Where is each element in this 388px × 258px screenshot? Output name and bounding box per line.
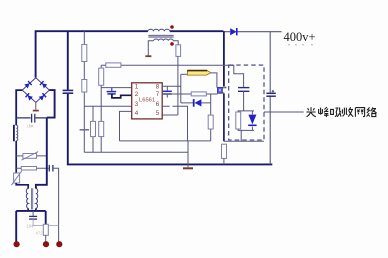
bridge diode bottom-left [26,93,33,100]
rail B x46.8 [36,118,47,189]
resistor R-leg vertical [43,224,48,235]
wire: drain vertical x224 [223,31,225,86]
transformer T1 primary winding [148,29,170,31]
capacitor C-snubber [238,88,249,92]
wire: bridge left to x16 [16,90,22,125]
common mode choke left winding [26,189,28,209]
terminal dot 1 [14,241,20,247]
label text 尖峰吸收网络 (hand-drawn strokes) [306,107,376,117]
rail x84: from top bus down [83,31,85,152]
transformer T1 core [148,35,173,37]
transformer T1 aux winding [154,39,174,41]
svg-text:472: 472 [36,231,44,236]
wire: pin5 [162,114,178,116]
wire: source to snubber bottom [224,140,264,142]
capacitor C-y [32,211,34,216]
resistor R-b1 [99,68,104,85]
wire: pin8 [162,85,181,87]
transistor Q1 MOSFET [218,87,226,95]
wire: aux right lead [173,41,178,45]
wire: left leg [15,211,17,242]
IC U1 L6561 [132,83,163,119]
收 [342,107,353,116]
resistor R-gate1 yellow highlighted [187,70,211,75]
junction crossbar on x84 [80,129,89,131]
resistor R-pulldown [208,115,213,129]
吸 [331,108,341,117]
wire: comp cap to pin2 (thick) [112,94,132,98]
decorative dots under text [288,44,312,45]
wire: pin3 [84,105,131,107]
capacitor C-out electrolytic [266,93,275,96]
尖 [306,107,315,117]
diode D-gate pointing left [181,102,211,104]
wire: long INV sense wire y65 [101,65,243,87]
bridge diode top-left [24,81,31,88]
bottom bar [16,210,46,212]
polarity dot aux [170,42,174,46]
wire: snubber cap to RD pair [238,91,254,141]
wire: pin6 to ground [162,106,187,141]
网 [355,108,364,117]
diode D-snubber pointing down [248,115,256,125]
wire: zcd vertical to pin5 [177,56,179,115]
wire: bulk rail x68 with bottom rail [67,31,69,90]
polarity + mark [272,90,274,92]
wire: gate node vertical x211 [210,94,212,141]
capacitor C-series to earth [49,165,53,172]
svg-text:4: 4 [135,110,139,117]
wire: gate drive node x181 [180,74,182,103]
svg-text:L6561: L6561 [139,98,155,104]
wire: pin1 [101,87,132,89]
resistor R-zcd [176,45,181,57]
resistor R-b2 [99,121,104,136]
bridge minus stub [35,102,37,109]
resistor R-c [91,121,96,136]
wire: bridge right to x54.6 down [47,90,55,118]
label pointer line [264,111,304,113]
wire: x16 to choke left top [16,183,28,189]
varistor RV1 horizontal [16,155,47,157]
polarity dot primary [170,25,174,29]
wire: choke bottoms to bar [28,208,36,211]
rail x93 [92,106,94,152]
resistor R-a1 [82,45,87,62]
svg-text:10A: 10A [27,124,34,129]
rail x101 [100,65,102,152]
svg-text:400v+: 400v+ [284,30,316,44]
wire: cap to earth line x58.6 [53,168,59,241]
rail y117.6 with series cap [16,117,47,119]
resistor R-snubber [236,112,241,129]
wire: source down [223,94,225,141]
capacitor C-comp [111,88,113,91]
signal ground rail y152 [84,151,188,153]
bridge diode bottom-right [39,93,46,100]
resistor R-a2 [82,80,87,93]
wire: top DC bus [36,31,224,77]
svg-text:6: 6 [156,101,160,108]
wire: x16 down [15,141,17,173]
inductor L1 on x16 [13,125,15,142]
common mode choke right winding [36,189,38,209]
ground: main [183,167,193,169]
resistor R-sense [222,144,227,158]
峰 [319,107,329,117]
diode D-boost on top bus [223,31,281,33]
ground rail y141 [120,140,211,142]
resistor R-gate2 horizontal [191,92,206,96]
dashed box: snubber [229,65,264,140]
svg-text:104: 104 [27,224,35,229]
wire: pin7 to gate resistor [162,93,217,95]
bridge rectifier diamond edges [22,78,49,103]
svg-text:7: 7 [156,91,160,98]
terminal dot 2 [43,241,49,247]
terminal dot 3 [56,241,62,247]
capacitor C-bulk on x68 line [63,90,74,93]
svg-text:1: 1 [135,84,139,91]
resistor R-inv-top horizontal [106,63,121,67]
wire: ground stem x188 [187,141,189,167]
wire: pin4 [120,111,132,140]
ground: aux winding [145,55,151,57]
wire: 400V rail down x270 [269,32,271,93]
capacitor C-vcc [166,86,168,91]
svg-text:8: 8 [156,84,160,91]
wire: sense R to rail [223,158,225,164]
wire: aux left lead [148,41,153,56]
bridge diode top-right [40,81,47,88]
varistor RV2 vertical [14,173,20,183]
wire: yellow resistor right to gate [211,73,217,88]
choke core lines [32,188,33,209]
resistor R-x horizontal [16,167,48,169]
wire: right leg [45,211,47,224]
svg-text:5: 5 [156,110,160,117]
络 [367,107,377,116]
